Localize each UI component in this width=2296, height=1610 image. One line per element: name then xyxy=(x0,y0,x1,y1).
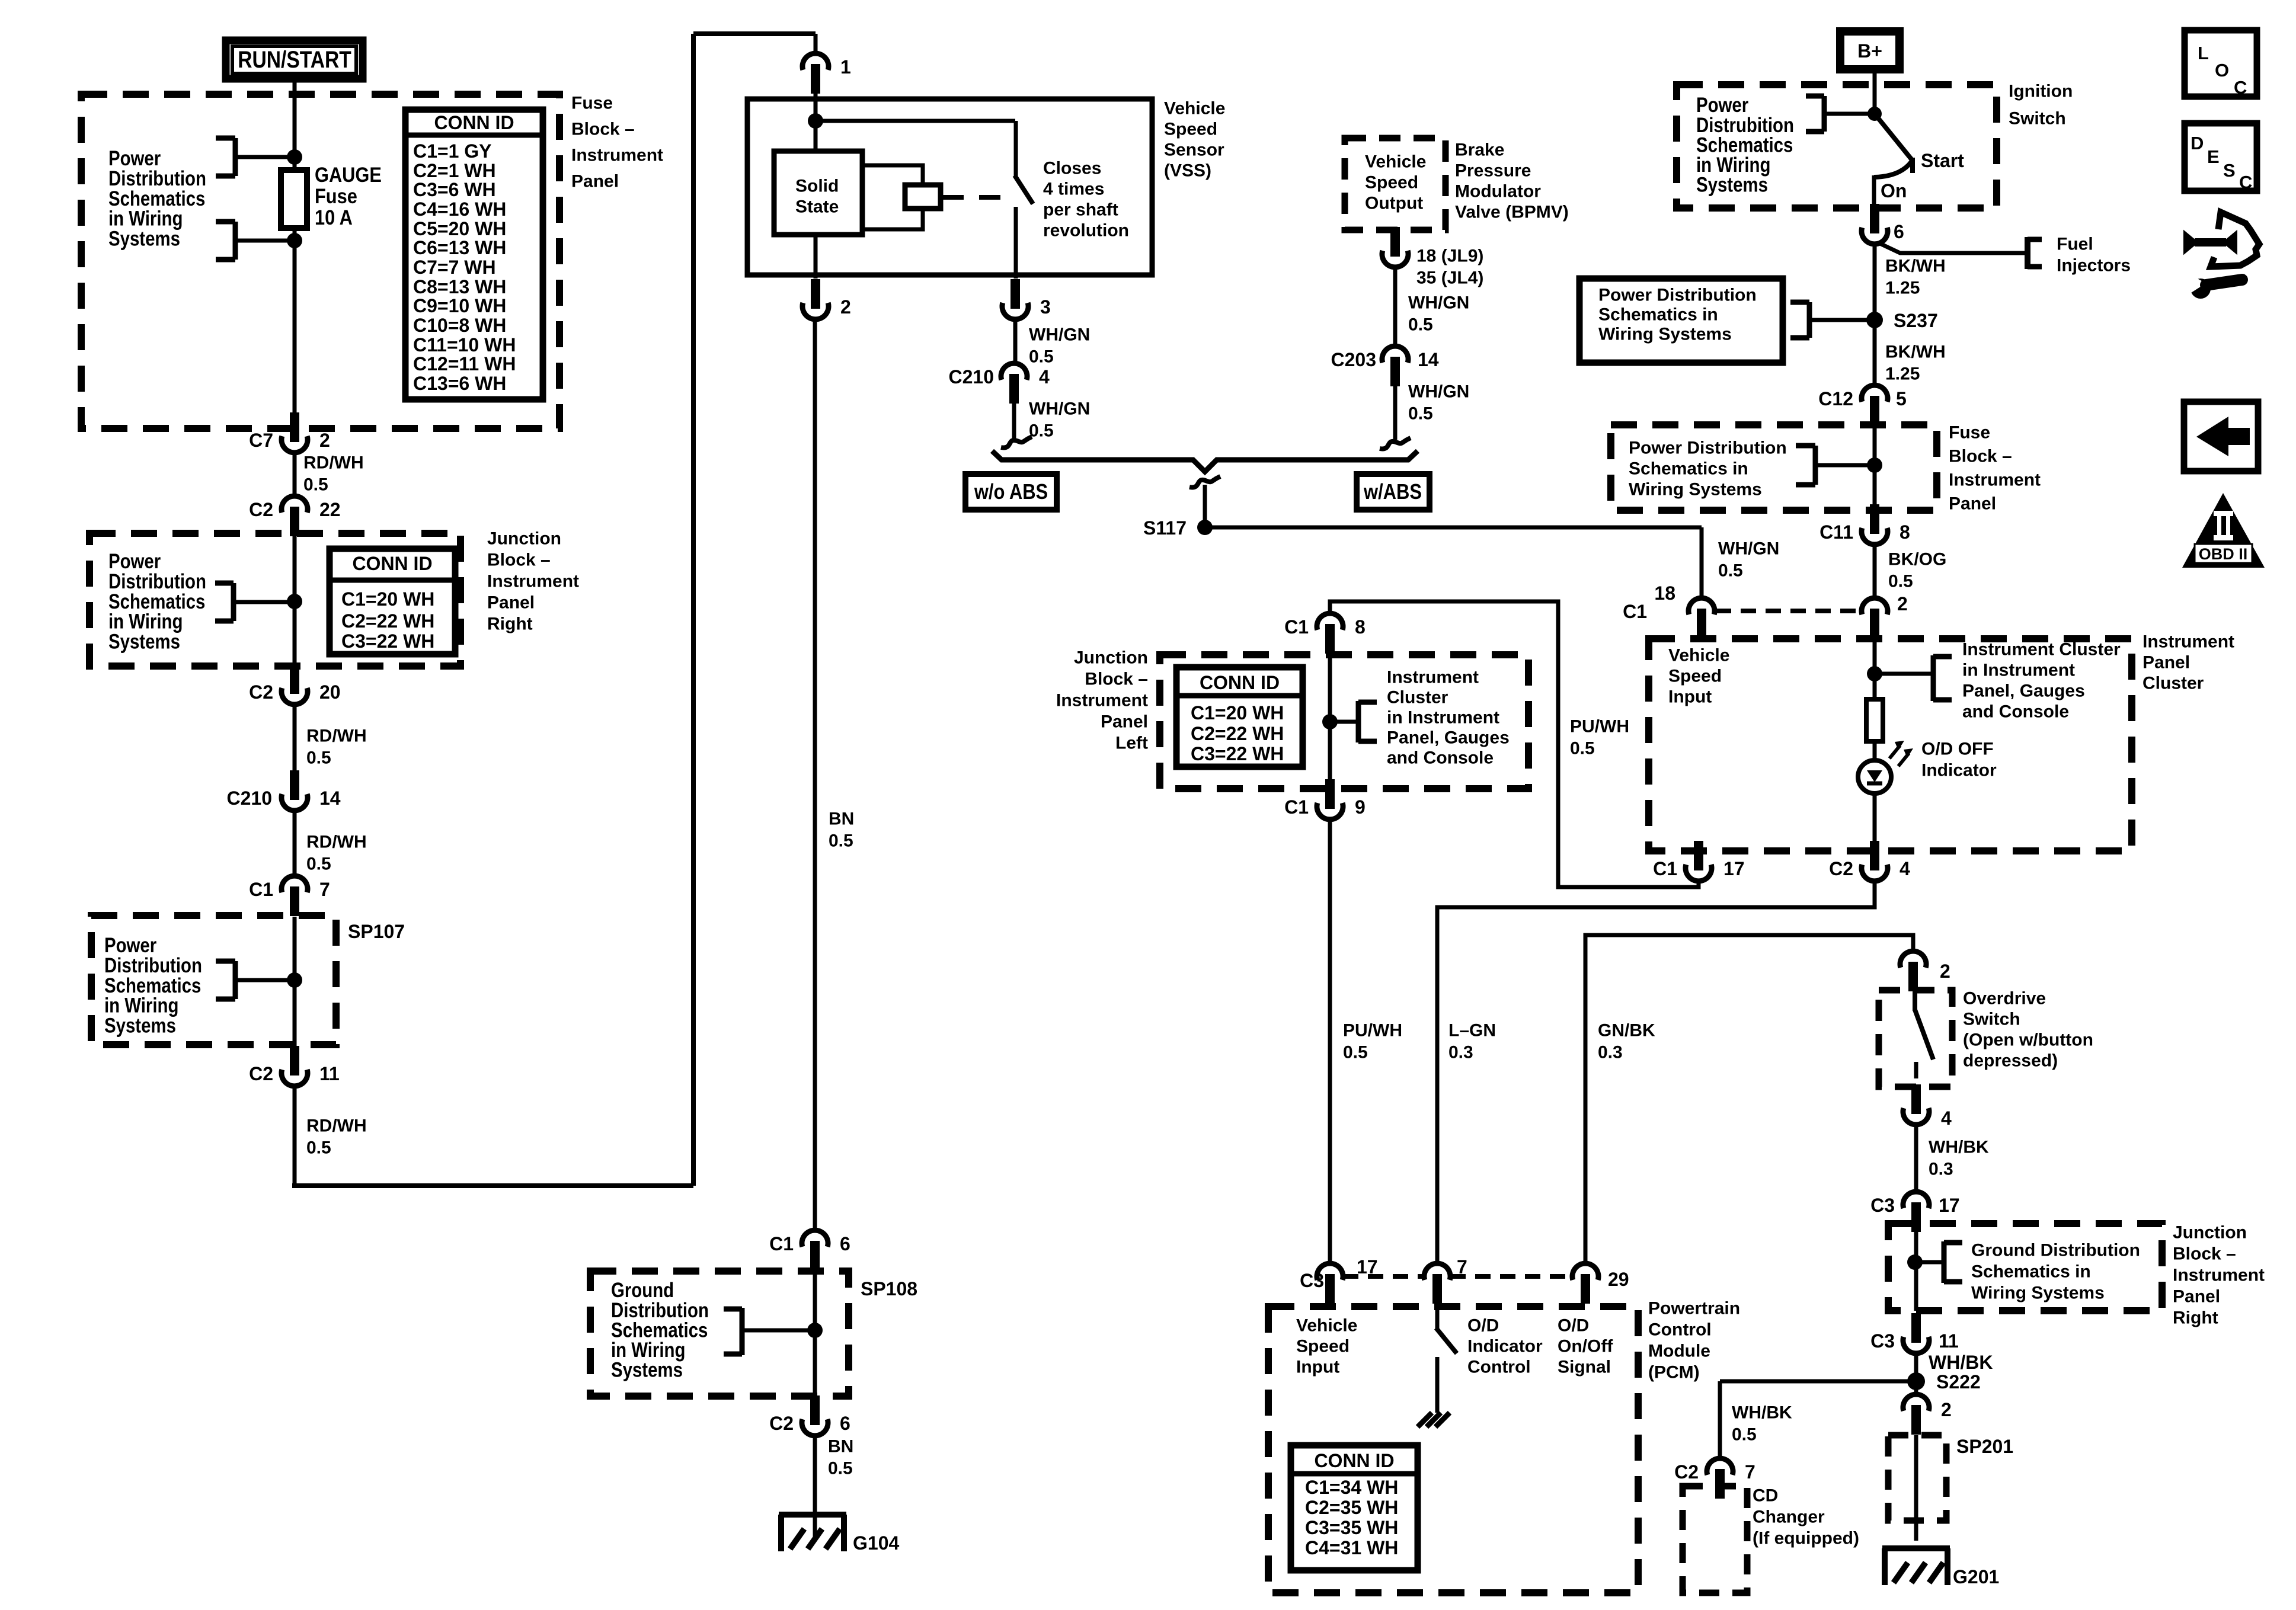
dashed wire C1-18 to cluster pin 2 xyxy=(1716,609,1860,613)
wire overdrive lower contact xyxy=(1914,1062,1918,1078)
svg-text:On/Off: On/Off xyxy=(1558,1337,1613,1356)
splice SP108 dashed box xyxy=(590,1271,849,1396)
svg-text:Output: Output xyxy=(1365,194,1423,213)
icon DESC box xyxy=(2185,123,2257,191)
svg-text:Vehicle: Vehicle xyxy=(1296,1316,1357,1336)
svg-text:1: 1 xyxy=(840,56,851,78)
svg-text:Schematics in: Schematics in xyxy=(1629,459,1748,479)
svg-text:4: 4 xyxy=(1900,858,1910,879)
svg-text:Panel: Panel xyxy=(2142,653,2190,673)
svg-text:D: D xyxy=(2191,133,2204,153)
wire junction block right2 internal xyxy=(1914,1224,1918,1311)
svg-text:Wiring Systems: Wiring Systems xyxy=(1971,1283,2105,1303)
svg-text:C11: C11 xyxy=(1819,521,1853,543)
svg-text:WH/GN: WH/GN xyxy=(1718,539,1779,559)
svg-text:GN/BK: GN/BK xyxy=(1598,1021,1655,1041)
svg-text:per shaft: per shaft xyxy=(1043,200,1118,220)
wire inside VSS to Solid State xyxy=(814,100,818,153)
svg-text:C1: C1 xyxy=(1284,616,1309,638)
svg-text:0.5: 0.5 xyxy=(1732,1425,1757,1445)
connector C1 pin 7 xyxy=(282,876,308,892)
splice node S222 xyxy=(1907,1372,1925,1390)
svg-text:Systems: Systems xyxy=(108,630,180,653)
wire BPMV down to C203-14 xyxy=(1393,266,1398,346)
svg-text:C2=1 WH: C2=1 WH xyxy=(413,160,496,181)
svg-text:2: 2 xyxy=(319,430,330,451)
splice SP201 dashed box xyxy=(1888,1435,1946,1521)
svg-text:Block –: Block – xyxy=(1085,670,1148,689)
svg-text:w/ABS: w/ABS xyxy=(1363,481,1422,504)
svg-text:(PCM): (PCM) xyxy=(1648,1363,1700,1382)
connector C12 pin 5 xyxy=(1862,385,1888,402)
svg-text:6: 6 xyxy=(1894,221,1904,242)
bracket fuse block 2 xyxy=(1813,446,1818,485)
svg-text:C4=31 WH: C4=31 WH xyxy=(1305,1537,1398,1558)
svg-text:Indicator: Indicator xyxy=(1467,1337,1543,1356)
svg-text:Vehicle: Vehicle xyxy=(1668,646,1729,665)
power distribution schematics solid box (right) xyxy=(1579,279,1783,363)
power tag B+ xyxy=(1840,31,1900,69)
svg-text:CD: CD xyxy=(1753,1486,1778,1506)
svg-text:Start: Start xyxy=(1921,150,1964,171)
svg-text:Right: Right xyxy=(2173,1308,2218,1328)
svg-text:Fuel: Fuel xyxy=(2057,235,2093,254)
svg-text:depressed): depressed) xyxy=(1963,1051,2058,1071)
svg-text:0.5: 0.5 xyxy=(1408,404,1433,424)
svg-text:0.5: 0.5 xyxy=(1408,315,1433,335)
fuse GAUGE 10A xyxy=(281,170,307,228)
CD changer dashed box xyxy=(1683,1486,1747,1593)
svg-text:17: 17 xyxy=(1723,858,1745,879)
svg-text:14: 14 xyxy=(1418,349,1439,370)
svg-text:Instrument: Instrument xyxy=(2142,632,2234,652)
svg-text:WH/BK: WH/BK xyxy=(1732,1403,1792,1423)
wire riser down to C1-18 xyxy=(1700,527,1704,599)
svg-text:4 times: 4 times xyxy=(1043,180,1104,199)
LED arrows xyxy=(1889,745,1900,758)
svg-text:3: 3 xyxy=(1040,296,1051,318)
svg-text:C: C xyxy=(2234,77,2247,98)
wire C7-2 to C2-22 xyxy=(293,453,297,497)
svg-text:PU/WH: PU/WH xyxy=(1570,717,1629,737)
svg-text:18: 18 xyxy=(1654,582,1675,604)
svg-text:7: 7 xyxy=(1745,1461,1755,1483)
svg-text:C3=22 WH: C3=22 WH xyxy=(341,630,434,652)
svg-text:in Instrument: in Instrument xyxy=(1387,708,1499,728)
solid state box xyxy=(774,151,862,235)
svg-text:Block –: Block – xyxy=(1949,447,2012,466)
connector C1 pin 18 xyxy=(1689,598,1715,614)
svg-text:and Console: and Console xyxy=(1387,748,1494,768)
vehicle speed output dashed box xyxy=(1345,138,1446,230)
svg-text:OBD II: OBD II xyxy=(2199,545,2248,563)
junction block instrument panel left dashed box xyxy=(1160,655,1528,789)
svg-text:20: 20 xyxy=(319,681,341,703)
conn table CONN ID PCM xyxy=(1291,1445,1418,1570)
connector C210 pin 4 xyxy=(1001,363,1027,380)
svg-text:C1: C1 xyxy=(1653,858,1677,879)
svg-text:Speed: Speed xyxy=(1365,173,1418,193)
svg-text:Instrument: Instrument xyxy=(487,572,579,591)
conn table CONN ID junction right xyxy=(330,549,455,654)
node junction block right xyxy=(287,594,302,609)
svg-text:C2: C2 xyxy=(249,1063,273,1084)
svg-text:C3: C3 xyxy=(1870,1195,1895,1216)
svg-text:Panel: Panel xyxy=(487,593,535,613)
VSS coil yoke xyxy=(862,165,923,187)
svg-text:10 A: 10 A xyxy=(315,206,353,229)
svg-text:Injectors: Injectors xyxy=(2057,256,2131,276)
bracket junction block right xyxy=(231,583,236,621)
connector 2 (overdrive) xyxy=(1900,951,1926,968)
svg-text:7: 7 xyxy=(319,879,330,900)
wire break wave (left merge) xyxy=(1001,437,1032,448)
svg-text:CONN ID: CONN ID xyxy=(1200,672,1280,693)
svg-text:C1=20 WH: C1=20 WH xyxy=(341,588,434,610)
svg-text:C3: C3 xyxy=(1300,1270,1324,1291)
svg-text:Instrument: Instrument xyxy=(1387,668,1479,687)
svg-text:Vehicle: Vehicle xyxy=(1164,99,1225,119)
wire LED to box bottom xyxy=(1873,793,1877,852)
connector 18 (BPMV) xyxy=(1382,251,1408,267)
wire S222 horizontal to CD changer branch xyxy=(1720,1379,1916,1384)
wire C1-17 loop to C1-8 xyxy=(1330,601,1699,887)
svg-text:C: C xyxy=(2239,172,2252,193)
node ignition B+ feed xyxy=(1868,107,1882,121)
svg-text:Brake: Brake xyxy=(1455,140,1504,160)
svg-text:2: 2 xyxy=(1941,1399,1952,1420)
svg-text:L: L xyxy=(2198,43,2209,63)
svg-text:0.3: 0.3 xyxy=(1598,1043,1623,1062)
wire through SP201 to G201 xyxy=(1914,1435,1918,1541)
VSS coil xyxy=(905,185,941,209)
svg-text:PU/WH: PU/WH xyxy=(1343,1021,1402,1041)
svg-text:BN: BN xyxy=(828,1437,853,1457)
node fuse block 2 xyxy=(1867,457,1882,473)
wire pin6 to S237 to C12-5 xyxy=(1873,244,1877,385)
svg-text:Vehicle: Vehicle xyxy=(1365,152,1426,172)
svg-text:C2=22 WH: C2=22 WH xyxy=(341,610,434,632)
connector C210 pin 14 (left) xyxy=(282,794,308,811)
svg-text:C9=10 WH: C9=10 WH xyxy=(413,295,506,316)
svg-text:C2: C2 xyxy=(1674,1461,1699,1483)
svg-text:Cluster: Cluster xyxy=(2142,674,2204,693)
svg-text:Instrument: Instrument xyxy=(1949,470,2041,490)
wire overdrive switch upper stub xyxy=(1913,990,1917,1011)
svg-text:9: 9 xyxy=(1355,796,1366,818)
node cluster feed xyxy=(1867,666,1882,681)
svg-text:Wiring Systems: Wiring Systems xyxy=(1629,480,1762,500)
connector 2 (cluster) xyxy=(1862,598,1888,614)
svg-text:O/D: O/D xyxy=(1467,1316,1499,1336)
overdrive switch dashed box xyxy=(1879,990,1952,1087)
svg-text:Control: Control xyxy=(1648,1320,1712,1340)
svg-text:Ground Distribution: Ground Distribution xyxy=(1971,1241,2140,1260)
svg-text:C2=22 WH: C2=22 WH xyxy=(1191,723,1284,744)
merge brace xyxy=(992,451,1418,472)
svg-text:G201: G201 xyxy=(1953,1566,1999,1587)
svg-text:Switch: Switch xyxy=(2009,109,2066,129)
svg-text:GAUGE: GAUGE xyxy=(315,163,382,186)
svg-text:0.3: 0.3 xyxy=(1448,1043,1473,1062)
wire C210-14 to C1-7 xyxy=(293,811,297,877)
svg-text:C6=13 WH: C6=13 WH xyxy=(413,237,506,258)
svg-text:0.5: 0.5 xyxy=(1343,1043,1368,1062)
wire inside junction block right xyxy=(293,535,297,668)
svg-text:G104: G104 xyxy=(853,1532,899,1554)
wire Solid State to pin 2 xyxy=(814,233,818,279)
option tag w/o ABS xyxy=(965,474,1057,510)
option tag w/ABS xyxy=(1357,474,1430,510)
connector 29 (PCM) xyxy=(1572,1263,1598,1280)
splice SP107 dashed box xyxy=(91,916,336,1045)
svg-text:2: 2 xyxy=(1940,961,1950,982)
svg-text:O/D: O/D xyxy=(1558,1316,1589,1336)
svg-text:29: 29 xyxy=(1608,1269,1629,1290)
svg-text:C2: C2 xyxy=(769,1413,794,1434)
fuse block instrument panel dashed box xyxy=(81,94,559,428)
svg-text:Systems: Systems xyxy=(1696,173,1768,196)
svg-text:WH/GN: WH/GN xyxy=(1029,325,1090,345)
svg-text:BK/OG: BK/OG xyxy=(1888,550,1946,569)
svg-text:SP107: SP107 xyxy=(348,921,405,942)
svg-text:0.5: 0.5 xyxy=(306,854,331,874)
bracket SP108 xyxy=(740,1308,745,1355)
svg-text:Panel: Panel xyxy=(571,172,619,191)
connector C2 pin 11 xyxy=(282,1070,308,1086)
svg-text:Block –: Block – xyxy=(2173,1244,2236,1264)
svg-text:BK/WH: BK/WH xyxy=(1885,257,1946,276)
svg-text:C1=1 GY: C1=1 GY xyxy=(413,140,492,162)
overdrive switch blade xyxy=(1915,1010,1933,1060)
svg-text:C3=22 WH: C3=22 WH xyxy=(1191,743,1284,764)
svg-text:2: 2 xyxy=(1897,593,1908,614)
wire inside SP107 xyxy=(293,917,297,1046)
svg-text:Fuse: Fuse xyxy=(571,94,613,113)
wire bottom horizontal run to x=1170 xyxy=(292,1183,693,1188)
svg-text:RD/WH: RD/WH xyxy=(303,453,364,473)
wire PCM OD indicator control switch xyxy=(1435,1278,1440,1329)
svg-text:(Open w/button: (Open w/button xyxy=(1963,1030,2093,1050)
svg-text:Instrument Cluster: Instrument Cluster xyxy=(1962,640,2121,660)
wire overdrive pin4 to C3-17 xyxy=(1914,1125,1918,1192)
svg-text:6: 6 xyxy=(840,1413,850,1434)
svg-text:Changer: Changer xyxy=(1753,1507,1825,1527)
bracket SP107 xyxy=(233,961,238,999)
wire VSS pin1 stub into box xyxy=(814,79,818,102)
svg-text:Cluster: Cluster xyxy=(1387,688,1448,708)
svg-text:C1: C1 xyxy=(1623,601,1647,622)
svg-text:SP108: SP108 xyxy=(861,1278,917,1299)
svg-text:S237: S237 xyxy=(1894,310,1938,331)
svg-text:22: 22 xyxy=(319,499,341,520)
wire ignition: B+ to junction xyxy=(1873,73,1877,114)
svg-text:Power Distribution: Power Distribution xyxy=(1598,286,1757,305)
connector 4 (overdrive) xyxy=(1903,1108,1929,1125)
bracket to fuse top node xyxy=(233,138,238,176)
svg-text:C12=11 WH: C12=11 WH xyxy=(413,353,516,375)
svg-text:C7: C7 xyxy=(249,430,273,451)
connector C1 pin 8 xyxy=(1317,613,1343,630)
svg-text:CONN ID: CONN ID xyxy=(434,112,514,133)
svg-text:C7=7 WH: C7=7 WH xyxy=(413,257,496,278)
svg-text:0.5: 0.5 xyxy=(303,475,328,495)
connector C203 pin 14 xyxy=(1382,346,1408,363)
svg-text:1.25: 1.25 xyxy=(1885,279,1920,298)
svg-text:4: 4 xyxy=(1941,1108,1952,1129)
switch blade inside VSS xyxy=(1015,175,1033,204)
connector C1 pin 9 xyxy=(1317,803,1343,820)
ignition travel arc xyxy=(1874,162,1911,177)
connector 2 (SP201) xyxy=(1903,1394,1929,1411)
connector C11 pin 8 xyxy=(1862,528,1888,545)
svg-text:Power Distribution: Power Distribution xyxy=(1629,438,1787,458)
svg-text:0.5: 0.5 xyxy=(1029,421,1054,441)
svg-text:w/o ABS: w/o ABS xyxy=(974,481,1048,504)
bracket ignition xyxy=(1822,96,1827,132)
svg-text:Input: Input xyxy=(1296,1358,1339,1377)
svg-text:C10=8 WH: C10=8 WH xyxy=(413,315,506,336)
svg-text:Schematics in: Schematics in xyxy=(1971,1262,2091,1282)
wire ignition On down to pin 6 xyxy=(1872,175,1876,208)
connector 6 (ignition) xyxy=(1862,228,1888,244)
svg-text:BN: BN xyxy=(829,809,854,829)
wire long vertical riser x=1170 xyxy=(691,34,696,1186)
wire GN/BK: PCM pin29 up, over to overdrive switch xyxy=(1585,935,1913,1265)
svg-text:Panel: Panel xyxy=(1101,712,1148,732)
resistor (cluster) xyxy=(1866,699,1883,741)
svg-text:Junction: Junction xyxy=(1074,648,1148,668)
svg-text:6: 6 xyxy=(840,1233,850,1254)
conn table CONN ID junction left xyxy=(1176,667,1303,767)
svg-text:7: 7 xyxy=(1457,1256,1467,1278)
wire inside SP108 xyxy=(813,1272,817,1397)
svg-text:C3=6 WH: C3=6 WH xyxy=(413,179,496,200)
bracket instrument cluster (right) xyxy=(1931,655,1936,701)
svg-text:SP201: SP201 xyxy=(1956,1436,2013,1457)
connector C2 pin 22 xyxy=(282,496,308,513)
svg-text:Speed: Speed xyxy=(1668,667,1722,686)
svg-text:CONN ID: CONN ID xyxy=(1314,1450,1394,1471)
svg-text:WH/GN: WH/GN xyxy=(1029,399,1090,419)
svg-text:Switch: Switch xyxy=(1963,1010,2020,1029)
svg-text:Panel: Panel xyxy=(1949,494,1996,514)
svg-text:Block –: Block – xyxy=(487,550,551,570)
svg-text:Fuse: Fuse xyxy=(1949,423,1990,443)
connector C2 pin 20 xyxy=(282,688,308,705)
svg-text:2: 2 xyxy=(840,296,851,318)
svg-text:1.25: 1.25 xyxy=(1885,364,1920,384)
svg-text:C1=20 WH: C1=20 WH xyxy=(1191,702,1284,724)
wire RUN/START feed down through fuse block xyxy=(293,82,297,415)
svg-text:Module: Module xyxy=(1648,1342,1710,1361)
svg-text:Valve (BPMV): Valve (BPMV) xyxy=(1455,203,1569,222)
connector C3 pin 17 (PCM) xyxy=(1317,1263,1343,1280)
junction block instrument panel right dashed box xyxy=(89,533,461,666)
connector C7 pin 2 xyxy=(282,436,308,453)
svg-text:0.5: 0.5 xyxy=(1718,561,1743,581)
svg-text:Systems: Systems xyxy=(108,227,180,250)
svg-text:Sensor: Sensor xyxy=(1164,140,1224,160)
node above GAUGE fuse xyxy=(287,149,302,165)
power tag RUN/START xyxy=(226,40,363,79)
svg-text:8: 8 xyxy=(1900,521,1910,543)
svg-text:C5=20 WH: C5=20 WH xyxy=(413,218,506,239)
svg-text:Instrument: Instrument xyxy=(2173,1266,2265,1285)
svg-text:Left: Left xyxy=(1115,734,1148,753)
svg-text:0.5: 0.5 xyxy=(306,748,331,768)
svg-text:Panel, Gauges: Panel, Gauges xyxy=(1387,728,1510,748)
connector 7 (PCM) xyxy=(1424,1263,1450,1280)
svg-text:Input: Input xyxy=(1668,687,1712,707)
svg-text:C12: C12 xyxy=(1818,388,1853,409)
svg-text:S222: S222 xyxy=(1936,1371,1981,1393)
bracket junction left xyxy=(1356,701,1361,742)
junction block instrument panel right 2 dashed box xyxy=(1888,1224,2162,1311)
svg-text:On: On xyxy=(1881,180,1907,201)
svg-text:0.5: 0.5 xyxy=(828,1459,853,1478)
svg-text:RD/WH: RD/WH xyxy=(306,726,367,746)
svg-text:WH/BK: WH/BK xyxy=(1929,1352,1993,1373)
svg-text:Systems: Systems xyxy=(104,1014,176,1037)
connector 3 (VSS) xyxy=(1002,303,1028,319)
svg-text:C8=13 WH: C8=13 WH xyxy=(413,276,506,297)
svg-text:C2: C2 xyxy=(1829,858,1853,879)
svg-text:RD/WH: RD/WH xyxy=(306,1116,367,1136)
icon LOC box xyxy=(2185,30,2257,97)
connector C2 pin 4 (cluster) xyxy=(1862,865,1888,881)
svg-text:Modulator: Modulator xyxy=(1455,182,1541,201)
ground G201 xyxy=(1882,1545,1950,1551)
node VSS internal xyxy=(808,113,823,129)
instrument panel cluster dashed box xyxy=(1649,639,2132,851)
svg-text:17: 17 xyxy=(1939,1195,1960,1216)
svg-text:E: E xyxy=(2207,146,2220,167)
wire BN: VSS pin2 down to C1-6 xyxy=(813,319,817,1230)
svg-text:Junction: Junction xyxy=(2173,1223,2247,1243)
svg-text:and Console: and Console xyxy=(1962,702,2069,722)
wire VSS internal switch top run xyxy=(816,119,1015,123)
bracket fuel injectors xyxy=(2025,237,2030,269)
svg-text:Speed: Speed xyxy=(1164,120,1217,139)
svg-text:Panel: Panel xyxy=(2173,1287,2220,1307)
svg-text:Closes: Closes xyxy=(1043,159,1101,178)
ignition switch dashed box xyxy=(1677,85,1997,208)
svg-text:0.5: 0.5 xyxy=(829,831,853,851)
svg-text:11: 11 xyxy=(1939,1330,1959,1352)
wire C2-20 to C210-14 xyxy=(293,705,297,770)
svg-text:RD/WH: RD/WH xyxy=(306,833,367,852)
svg-text:C1=34 WH: C1=34 WH xyxy=(1305,1477,1398,1498)
svg-text:8: 8 xyxy=(1355,616,1366,638)
svg-text:C1: C1 xyxy=(1284,796,1309,818)
svg-text:(If equipped): (If equipped) xyxy=(1753,1529,1859,1548)
wire VSS switch lower contact xyxy=(1014,207,1018,279)
wire C203-14 to merge brace xyxy=(1393,386,1398,440)
wire break wave (right merge) xyxy=(1380,438,1411,449)
svg-text:Instrument: Instrument xyxy=(571,146,663,165)
svg-text:Right: Right xyxy=(487,614,533,634)
svg-text:Powertrain: Powertrain xyxy=(1648,1299,1740,1318)
wire C3-11 to S222 to pin 2 xyxy=(1914,1353,1918,1394)
svg-text:C3: C3 xyxy=(1870,1330,1895,1352)
svg-text:C2: C2 xyxy=(249,499,273,520)
wire brace center to S117 xyxy=(1203,485,1207,527)
svg-text:11: 11 xyxy=(319,1063,340,1084)
powertrain control module dashed box xyxy=(1268,1307,1638,1593)
svg-text:S117: S117 xyxy=(1143,517,1187,539)
vehicle speed sensor box xyxy=(747,99,1152,275)
